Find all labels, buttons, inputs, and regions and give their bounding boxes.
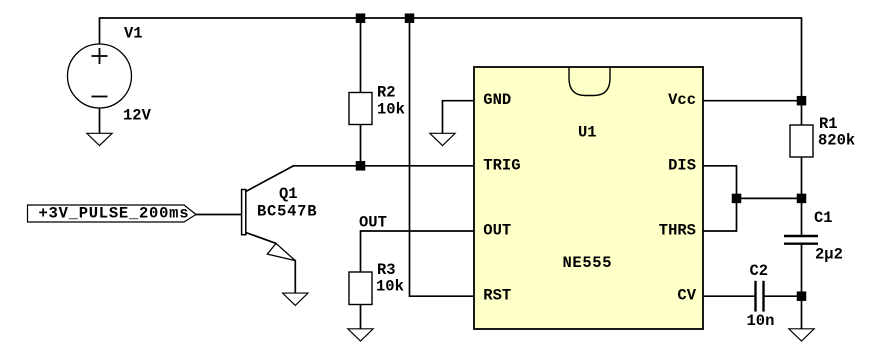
svg-text:RST: RST bbox=[483, 287, 511, 305]
svg-text:R3: R3 bbox=[377, 261, 396, 279]
svg-text:U1: U1 bbox=[578, 124, 597, 142]
svg-text:10k: 10k bbox=[376, 278, 404, 296]
svg-text:+3V_PULSE_200ms: +3V_PULSE_200ms bbox=[39, 205, 189, 223]
svg-text:TRIG: TRIG bbox=[483, 156, 520, 174]
svg-text:OUT: OUT bbox=[483, 222, 511, 240]
svg-text:820k: 820k bbox=[818, 131, 855, 149]
svg-text:10n: 10n bbox=[747, 312, 775, 330]
svg-text:C2: C2 bbox=[750, 262, 769, 280]
svg-text:R2: R2 bbox=[377, 83, 396, 101]
svg-text:2µ2: 2µ2 bbox=[815, 246, 843, 264]
svg-text:Q1: Q1 bbox=[279, 185, 298, 203]
svg-text:CV: CV bbox=[677, 287, 696, 305]
svg-text:BC547B: BC547B bbox=[257, 202, 317, 220]
svg-text:V1: V1 bbox=[124, 25, 143, 43]
svg-text:THRS: THRS bbox=[659, 222, 696, 240]
svg-text:C1: C1 bbox=[814, 209, 833, 227]
svg-text:DIS: DIS bbox=[668, 156, 696, 174]
svg-text:NE555: NE555 bbox=[563, 254, 612, 272]
svg-text:Vcc: Vcc bbox=[668, 91, 696, 109]
svg-text:R1: R1 bbox=[819, 115, 838, 133]
svg-text:OUT: OUT bbox=[359, 213, 387, 231]
svg-text:10k: 10k bbox=[377, 100, 405, 118]
svg-text:12V: 12V bbox=[123, 107, 152, 125]
svg-text:GND: GND bbox=[483, 91, 511, 109]
